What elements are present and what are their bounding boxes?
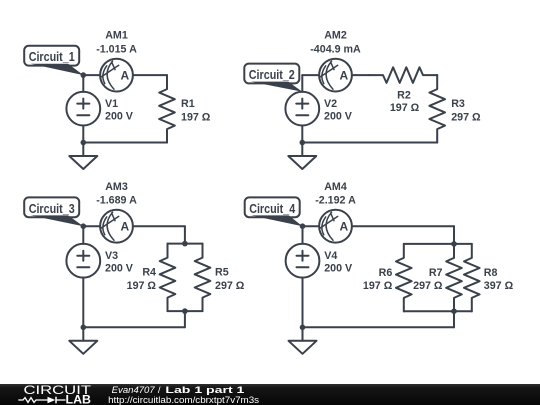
- wire AM1 right to corner: [133, 74, 167, 76]
- svg-text:http://circuitlab.com/cbrxtpt7: http://circuitlab.com/cbrxtpt7v7m3s: [108, 394, 259, 405]
- voltage source V4: [286, 244, 320, 278]
- wire R2 to corner: [436, 74, 439, 76]
- ammeter AM1: [100, 59, 133, 92]
- svg-text:A: A: [120, 68, 129, 82]
- wire bottom bus C3: [168, 310, 203, 312]
- logo diode: [48, 397, 56, 404]
- svg-text:R8: R8: [484, 267, 498, 279]
- junction V4-ground-rail: [300, 325, 306, 331]
- svg-text:V4: V4: [324, 250, 337, 262]
- junction node Circuit_1: [81, 72, 87, 78]
- ground C4: [289, 327, 317, 354]
- resistor R4: [160, 244, 176, 312]
- svg-text:297 Ω: 297 Ω: [215, 280, 245, 292]
- ground C2: [288, 143, 316, 170]
- ammeter AM2: [319, 59, 352, 92]
- svg-text:R4: R4: [142, 267, 156, 279]
- svg-text:V2: V2: [324, 98, 337, 110]
- svg-text:LAB: LAB: [66, 393, 92, 405]
- svg-text:R6: R6: [379, 267, 393, 279]
- svg-text:-1.689 A: -1.689 A: [96, 195, 137, 207]
- wire bottom rail C3: [83, 326, 185, 328]
- svg-text:AM4: AM4: [324, 181, 347, 193]
- svg-text:V3: V3: [105, 250, 118, 262]
- ammeter AM3: [100, 210, 133, 243]
- wire node to V1 top: [82, 75, 84, 92]
- svg-text:Circuit_4: Circuit_4: [249, 202, 295, 216]
- wire V2 bottom to rail: [301, 126, 303, 143]
- wire bottom rail C2: [302, 142, 437, 144]
- ammeter AM4: [319, 210, 352, 243]
- svg-text:R5: R5: [215, 267, 229, 279]
- svg-text:Circuit_3: Circuit_3: [29, 202, 75, 216]
- svg-text:397 Ω: 397 Ω: [484, 280, 514, 292]
- resistor R1: [159, 75, 175, 143]
- svg-text:AM3: AM3: [105, 181, 128, 193]
- wire AM4 right to corner: [352, 225, 454, 227]
- svg-text:297 Ω: 297 Ω: [413, 280, 443, 292]
- wire bottom rail C1: [83, 142, 167, 144]
- resistor R2: [369, 67, 437, 83]
- svg-text:R2: R2: [397, 89, 411, 101]
- junction top bus C3: [182, 241, 188, 247]
- junction bottom bus C4: [451, 308, 457, 314]
- wire V4 bottom to rail: [302, 278, 304, 328]
- ground C1: [69, 143, 97, 170]
- wire V1 bottom to rail: [82, 126, 84, 143]
- wire node to AM4 left: [303, 225, 320, 227]
- ground C3: [69, 327, 97, 354]
- svg-text:197 Ω: 197 Ω: [390, 102, 420, 114]
- resistor R3: [429, 75, 445, 143]
- svg-text:-1.015 A: -1.015 A: [96, 43, 137, 55]
- wire node to V4 top: [302, 226, 304, 244]
- svg-text:197 Ω: 197 Ω: [363, 280, 393, 292]
- svg-text:197 Ω: 197 Ω: [127, 280, 157, 292]
- voltage source V3: [66, 244, 100, 278]
- wire corner down to top bus C3: [184, 226, 186, 243]
- wire top bus C4: [404, 243, 472, 245]
- svg-text:R3: R3: [451, 98, 465, 110]
- wire corner down to top bus C4: [453, 226, 455, 244]
- net flag Circuit_3: [24, 197, 83, 226]
- resistor R6: [396, 244, 412, 312]
- junction V1-ground-rail: [81, 140, 87, 146]
- svg-text:A: A: [339, 220, 348, 234]
- net flag Circuit_2: [244, 64, 302, 92]
- wire V3 bottom to rail: [82, 278, 84, 328]
- junction V3-ground-rail: [81, 325, 87, 331]
- wire bottom bus to rail C3: [184, 311, 186, 327]
- svg-text:-2.192 A: -2.192 A: [315, 195, 356, 207]
- voltage source V2: [285, 92, 319, 126]
- junction bottom bus C3: [182, 308, 188, 314]
- wire top bus C3: [168, 243, 203, 245]
- wire corner to AM2 left: [302, 74, 319, 76]
- net flag Circuit_1: [24, 46, 83, 75]
- svg-text:-404.9 mA: -404.9 mA: [310, 43, 361, 55]
- resistor R8: [464, 244, 480, 312]
- wire bottom bus to rail C4: [453, 311, 455, 327]
- resistor R5: [195, 244, 211, 312]
- wire node to V3 top: [82, 226, 84, 244]
- voltage source V1: [66, 92, 100, 126]
- svg-text:197 Ω: 197 Ω: [181, 111, 211, 123]
- resistor R7: [446, 244, 462, 312]
- svg-text:R7: R7: [429, 267, 443, 279]
- svg-text:Circuit_1: Circuit_1: [29, 50, 75, 64]
- svg-text:A: A: [120, 220, 129, 234]
- junction node Circuit_3: [81, 223, 87, 229]
- wire V2 top to corner: [301, 75, 303, 92]
- svg-text:200 V: 200 V: [105, 263, 134, 275]
- svg-text:Circuit_2: Circuit_2: [249, 68, 295, 82]
- svg-text:R1: R1: [181, 98, 195, 110]
- wire bottom rail C4: [303, 326, 455, 328]
- junction top bus C4: [451, 241, 457, 247]
- svg-text:V1: V1: [105, 98, 118, 110]
- wire bottom bus C4: [404, 310, 472, 312]
- svg-text:200 V: 200 V: [105, 110, 134, 122]
- wire AM2 right to R2: [352, 74, 369, 76]
- svg-text:200 V: 200 V: [324, 263, 353, 275]
- wire AM3 right to corner: [133, 225, 185, 227]
- wire node to AM1 left: [83, 74, 100, 76]
- svg-text:AM1: AM1: [105, 30, 128, 42]
- svg-text:297 Ω: 297 Ω: [451, 111, 481, 123]
- svg-text:200 V: 200 V: [324, 110, 353, 122]
- junction V2-ground-rail: [300, 140, 306, 146]
- junction node Circuit_4: [300, 223, 306, 229]
- net flag Circuit_4: [245, 197, 303, 226]
- svg-text:AM2: AM2: [324, 30, 347, 42]
- svg-text:A: A: [339, 68, 348, 82]
- wire node to AM3 left: [83, 225, 100, 227]
- logo resistor zigzag: [18, 398, 47, 403]
